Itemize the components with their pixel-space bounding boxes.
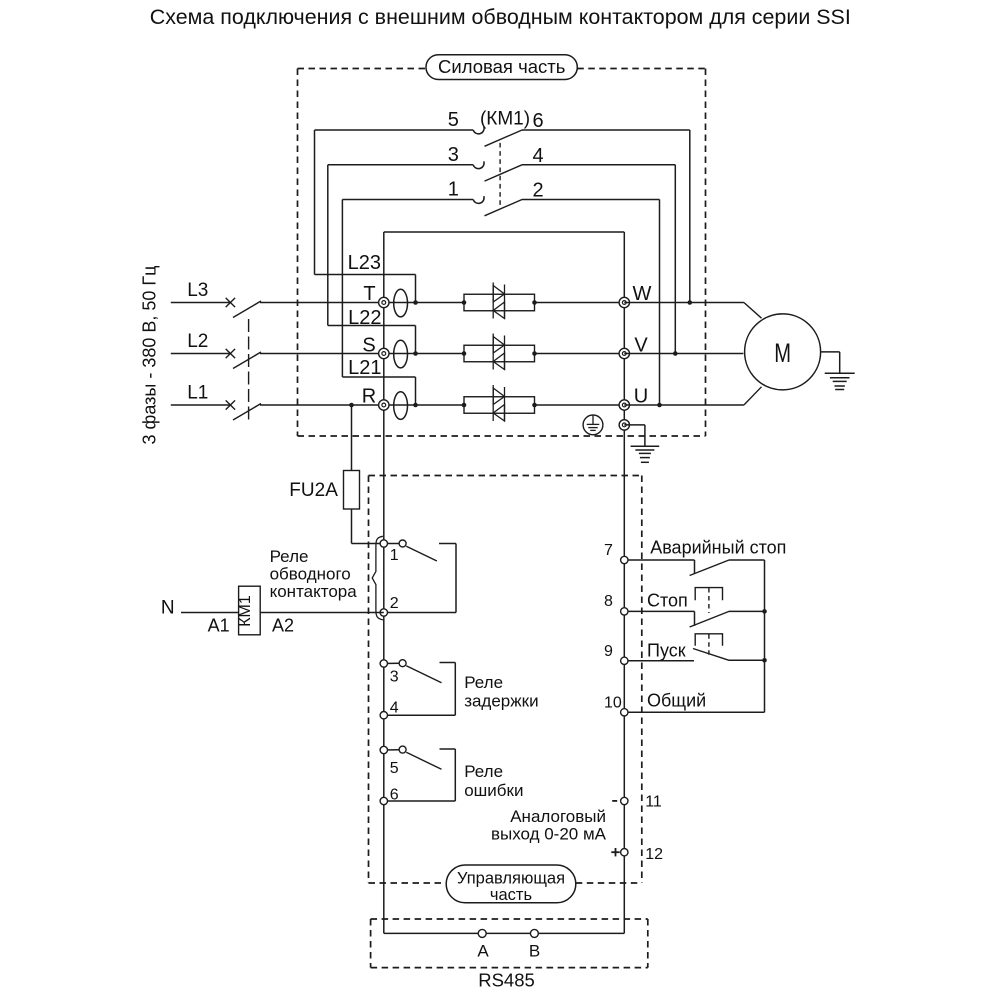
- svg-text:3: 3: [448, 144, 459, 166]
- svg-text:6: 6: [532, 110, 543, 132]
- svg-text:M: M: [774, 338, 791, 367]
- svg-text:11: 11: [645, 794, 662, 811]
- svg-text:L21: L21: [348, 357, 381, 379]
- svg-text:N: N: [161, 598, 175, 619]
- svg-text:Реле: Реле: [270, 547, 309, 566]
- svg-text:8: 8: [604, 593, 613, 610]
- svg-text:R: R: [362, 386, 376, 408]
- svg-text:Аналоговый: Аналоговый: [510, 807, 606, 826]
- svg-text:Реле: Реле: [464, 762, 503, 781]
- svg-text:6: 6: [390, 787, 399, 804]
- svg-text:Аварийный стоп: Аварийный стоп: [650, 538, 786, 558]
- svg-text:2: 2: [390, 595, 399, 612]
- svg-text:Стоп: Стоп: [647, 590, 688, 610]
- svg-text:(КМ1): (КМ1): [480, 109, 530, 130]
- svg-text:L22: L22: [348, 307, 381, 329]
- svg-text:Пуск: Пуск: [647, 641, 686, 661]
- svg-text:L23: L23: [348, 252, 381, 274]
- svg-text:L3: L3: [187, 280, 208, 301]
- svg-text:W: W: [633, 283, 652, 305]
- svg-text:9: 9: [604, 643, 613, 660]
- svg-text:КМ1: КМ1: [237, 595, 254, 627]
- svg-text:обводного: обводного: [270, 565, 351, 584]
- svg-text:12: 12: [645, 846, 663, 863]
- svg-text:Реле: Реле: [464, 673, 503, 692]
- svg-text:1: 1: [390, 547, 399, 564]
- svg-text:U: U: [634, 386, 648, 408]
- svg-text:4: 4: [390, 700, 399, 717]
- svg-text:A: A: [477, 942, 489, 961]
- svg-text:T: T: [363, 283, 375, 305]
- svg-text:10: 10: [604, 694, 622, 711]
- svg-text:RS485: RS485: [478, 970, 535, 991]
- svg-text:выход 0-20 мА: выход 0-20 мА: [491, 825, 607, 844]
- svg-text:B: B: [529, 942, 540, 961]
- svg-text:L1: L1: [187, 383, 208, 404]
- svg-text:A2: A2: [272, 616, 294, 636]
- svg-text:ошибки: ошибки: [464, 781, 523, 800]
- svg-text:A1: A1: [208, 616, 230, 636]
- svg-text:Схема подключения с внешним об: Схема подключения с внешним обводным кон…: [150, 4, 851, 29]
- svg-text:Общий: Общий: [647, 691, 706, 711]
- svg-text:Управляющая: Управляющая: [457, 870, 565, 888]
- svg-text:задержки: задержки: [464, 692, 538, 711]
- svg-text:3: 3: [390, 669, 399, 686]
- svg-text:контактора: контактора: [270, 582, 358, 601]
- svg-text:4: 4: [532, 145, 543, 167]
- svg-text:5: 5: [448, 109, 459, 131]
- svg-text:S: S: [362, 335, 375, 357]
- svg-text:Силовая часть: Силовая часть: [438, 56, 565, 77]
- svg-text:1: 1: [448, 179, 459, 201]
- svg-text:3 фазы - 380 В, 50 Гц: 3 фазы - 380 В, 50 Гц: [140, 266, 160, 445]
- svg-text:5: 5: [390, 760, 399, 777]
- svg-text:FU2A: FU2A: [289, 480, 338, 501]
- svg-text:L2: L2: [187, 331, 208, 352]
- svg-text:2: 2: [532, 180, 543, 202]
- svg-text:часть: часть: [490, 886, 532, 904]
- svg-text:7: 7: [604, 542, 613, 559]
